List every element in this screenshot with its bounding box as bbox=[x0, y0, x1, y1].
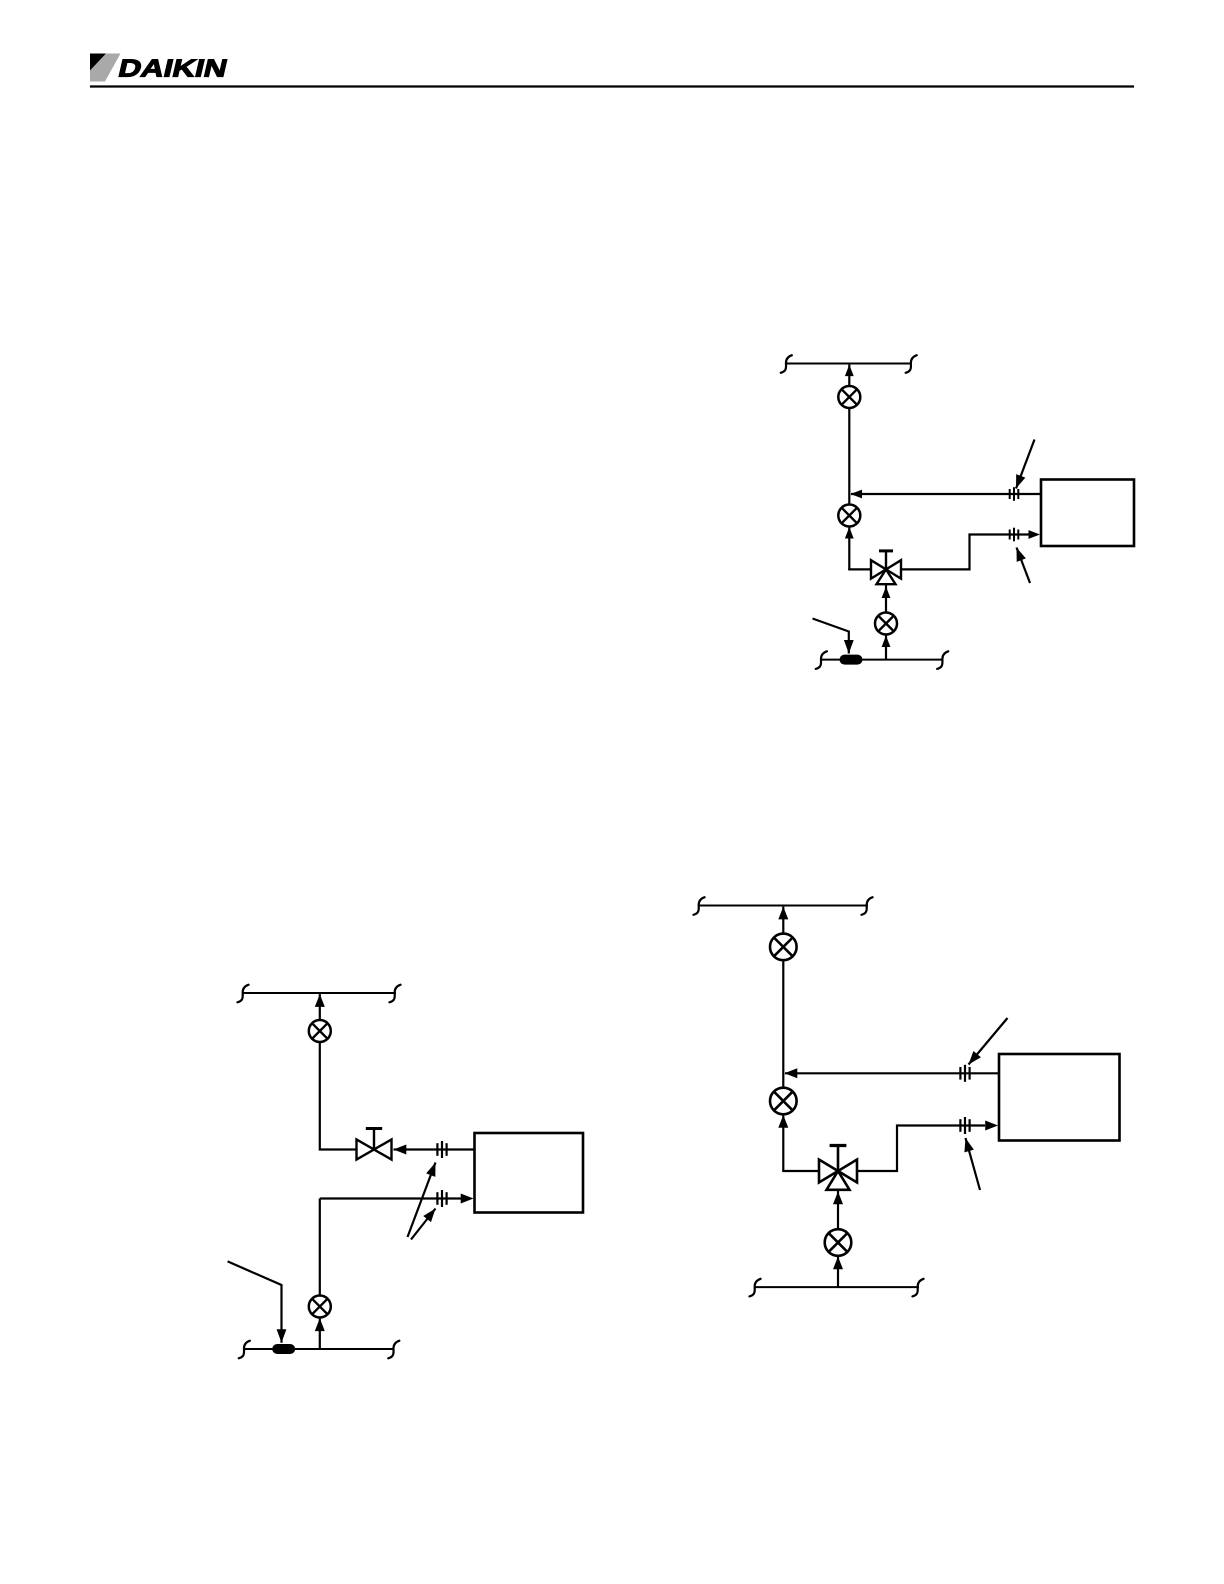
D2 supply pipe to unit bbox=[320, 1197, 464, 1199]
D1 arrow left into riser bbox=[851, 490, 863, 499]
D1 bottom main pipe bbox=[821, 659, 944, 661]
D2 top main right pipe-break bbox=[389, 985, 400, 1003]
D1 arrow up into middle valve bbox=[845, 527, 854, 539]
D1 leader arrow to strainer bbox=[813, 619, 854, 654]
D2 leader arrow to return union bbox=[408, 1161, 441, 1237]
D1 supply pipe from valve to unit bbox=[901, 535, 1030, 570]
D3 top main right pipe-break bbox=[861, 897, 872, 915]
D3 riser between valves bbox=[782, 960, 784, 1088]
D2 return pipe from unit bbox=[394, 1148, 475, 1150]
D2 leader arrow to supply union bbox=[411, 1205, 439, 1239]
D2 arrow right into unit bbox=[461, 1194, 474, 1204]
D3 arrow right into unit bbox=[985, 1121, 998, 1131]
D1 bottom main right pipe-break bbox=[937, 651, 948, 669]
D1 lower balancing valve (circle-X) bbox=[875, 613, 897, 635]
D2 arrow up into top main bbox=[315, 994, 325, 1007]
D1 union on supply pipe bbox=[1010, 528, 1019, 542]
D2 top main left pipe-break bbox=[237, 985, 248, 1003]
D1 top main pipe bbox=[786, 363, 913, 365]
header rule bbox=[90, 85, 1134, 87]
D3 arrow up into 3-way valve bbox=[833, 1192, 843, 1205]
D2 riser between supply tee and lower valve bbox=[319, 1199, 321, 1296]
D1 pipe above bottom main bbox=[885, 634, 887, 659]
D3 pipe above bottom main bbox=[837, 1256, 839, 1287]
D3 arrow up into middle valve bbox=[778, 1115, 788, 1128]
D2 lower balancing valve (circle-X) bbox=[309, 1296, 331, 1318]
D2 top main pipe bbox=[242, 992, 396, 994]
D3 arrow left into riser bbox=[785, 1068, 798, 1078]
D2 union on return pipe bbox=[437, 1141, 446, 1158]
D3 riser below middle valve bbox=[782, 1114, 784, 1171]
D3 top main pipe bbox=[698, 905, 868, 907]
D2 riser above bottom main bbox=[319, 1317, 321, 1349]
D3 arrow up into top main bbox=[778, 907, 788, 920]
D1 top main right pipe-break bbox=[906, 355, 917, 373]
D2 upper balancing valve (circle-X) bbox=[309, 1020, 331, 1042]
D3 arrow up into lower valve bbox=[833, 1257, 843, 1270]
D1 unit box bbox=[1041, 480, 1134, 547]
D3 supply pipe from valve to unit bbox=[857, 1126, 985, 1172]
D1 arrow right into unit bbox=[1029, 530, 1041, 539]
D1 three-way valve bbox=[871, 551, 901, 584]
D1 riser segment between valves bbox=[848, 408, 850, 505]
D2 arrow up into lower valve bbox=[315, 1318, 325, 1331]
D2 two-way valve bbox=[357, 1129, 392, 1160]
D1 horizontal pipe into 3-way valve bbox=[848, 568, 871, 570]
D1 bottom main left pipe-break bbox=[816, 651, 827, 669]
D1 arrow up into 3-way valve bbox=[882, 587, 891, 599]
D1 arrow up into top main bbox=[845, 365, 854, 377]
D3 leader arrow to supply union bbox=[961, 1137, 980, 1190]
D1 middle balancing valve (circle-X) bbox=[838, 505, 860, 527]
D2 bottom main left pipe-break bbox=[239, 1341, 250, 1359]
D2 bottom main pipe bbox=[244, 1348, 395, 1350]
D3 leader arrow to return union bbox=[965, 1018, 1008, 1068]
D1 riser segment below middle valve bbox=[848, 526, 850, 569]
D1 pipe below 3-way valve bbox=[885, 584, 887, 612]
D2 riser down to 2-way valve bbox=[320, 1042, 357, 1150]
D3 three-way valve bbox=[819, 1146, 857, 1190]
D3 unit box bbox=[999, 1054, 1120, 1141]
D3 upper balancing valve (circle-X) bbox=[770, 934, 797, 961]
D3 bottom main left pipe-break bbox=[749, 1279, 760, 1297]
Daikin logo mark (black triangle + gray stripe) bbox=[90, 54, 121, 82]
D2 riser above balancing valve bbox=[319, 994, 321, 1020]
D2 arrow left into 2-way valve bbox=[394, 1145, 407, 1155]
D1 top main left pipe-break bbox=[781, 355, 792, 373]
D2 union on supply pipe bbox=[437, 1190, 446, 1207]
D3 union on return pipe bbox=[960, 1065, 969, 1082]
D3 riser above upper balancing valve bbox=[782, 907, 784, 934]
D2 leader arrow to strainer bbox=[228, 1261, 287, 1342]
D3 middle balancing valve (circle-X) bbox=[770, 1088, 797, 1115]
D1 arrow up into lower valve bbox=[882, 636, 891, 648]
Daikin logo wordmark bbox=[119, 60, 227, 77]
D3 horizontal pipe into 3-way valve bbox=[782, 1170, 819, 1172]
D3 return pipe from unit bbox=[785, 1072, 999, 1074]
D2 unit box bbox=[475, 1133, 584, 1213]
D3 bottom main right pipe-break bbox=[912, 1279, 923, 1297]
D1 return pipe from unit bbox=[851, 493, 1041, 495]
D3 lower balancing valve (circle-X) bbox=[825, 1229, 852, 1256]
D1 riser segment above upper balancing valve bbox=[848, 365, 850, 387]
D2 strainer capsule on bottom main bbox=[272, 1344, 295, 1354]
D1 strainer capsule on bottom main bbox=[840, 655, 863, 665]
D2 bottom main right pipe-break bbox=[388, 1341, 399, 1359]
D1 upper balancing valve (circle-X) bbox=[838, 386, 860, 408]
D3 top main left pipe-break bbox=[693, 897, 704, 915]
D1 union on return pipe bbox=[1010, 487, 1019, 501]
D3 bottom main pipe bbox=[754, 1286, 919, 1288]
D3 pipe below 3-way valve bbox=[837, 1190, 839, 1229]
D3 union on supply pipe bbox=[960, 1117, 969, 1134]
D1 leader arrow to return union bbox=[1011, 440, 1034, 491]
D1 leader arrow to supply union bbox=[1012, 546, 1030, 583]
